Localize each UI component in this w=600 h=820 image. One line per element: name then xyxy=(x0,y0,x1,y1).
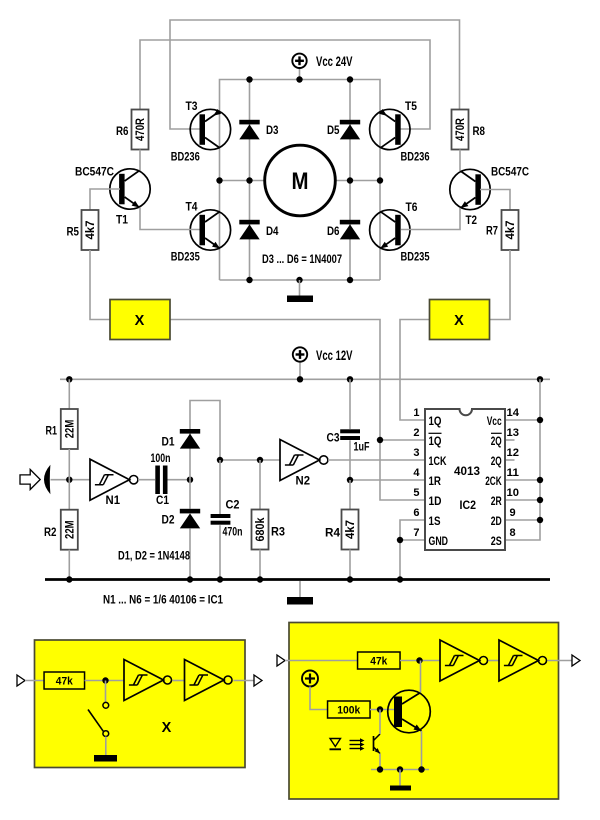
IC2 4013 body xyxy=(425,409,505,550)
wire between inverters xyxy=(173,680,185,682)
wire T1 base to R5 xyxy=(90,189,120,210)
svg-text:2D: 2D xyxy=(491,516,502,528)
wire right bridge leg lower xyxy=(379,181,381,281)
diode D6 xyxy=(340,220,360,240)
capacitor C1 xyxy=(155,466,167,495)
svg-text:N1: N1 xyxy=(106,493,121,507)
wire Vcc24 stub xyxy=(299,68,301,80)
junction gnd D2 xyxy=(187,576,193,582)
junction bottom 3 xyxy=(418,766,424,772)
wire C3 stem top xyxy=(349,379,351,429)
svg-text:1: 1 xyxy=(413,407,419,419)
detail-right output arrow xyxy=(572,655,580,666)
svg-text:X: X xyxy=(162,720,172,736)
pin stub 13 xyxy=(505,439,515,441)
junction rail C3 xyxy=(347,376,353,382)
switch contact top xyxy=(103,702,109,708)
wire R6 to T5 base (cross-coupling) xyxy=(140,40,430,129)
motor M xyxy=(265,145,336,216)
svg-text:1Q: 1Q xyxy=(429,416,442,428)
svg-text:T6: T6 xyxy=(406,200,418,214)
svg-text:5: 5 xyxy=(413,487,419,499)
schmitt inverter detail-left inverter 1 xyxy=(124,660,172,701)
svg-text:100k: 100k xyxy=(337,705,361,717)
svg-text:1uF: 1uF xyxy=(354,440,370,454)
svg-text:4: 4 xyxy=(413,467,420,479)
svg-text:R8: R8 xyxy=(473,124,486,138)
wire 47k to inverters xyxy=(400,660,440,662)
wire detail-right bottom xyxy=(371,769,429,771)
svg-text:4k7: 4k7 xyxy=(343,520,357,539)
transistor T1 BC547C xyxy=(110,169,150,209)
junction bottom rail D4 xyxy=(246,277,252,283)
junction p9 xyxy=(537,517,543,523)
block X left xyxy=(110,300,170,340)
svg-text:2: 2 xyxy=(413,427,419,439)
svg-text:T5: T5 xyxy=(405,99,417,113)
phototransistor glyph xyxy=(374,734,381,754)
schmitt inverter detail-left inverter 2 xyxy=(185,660,233,701)
junction p10 xyxy=(537,497,543,503)
svg-text:1D: 1D xyxy=(429,496,442,508)
svg-text:BD235: BD235 xyxy=(171,250,200,264)
ground detail-right xyxy=(390,786,411,791)
wire D2 to gnd xyxy=(189,528,191,579)
wire 1S pin 6 to GND pin 7 xyxy=(400,520,425,540)
wire C2 to gnd xyxy=(219,525,221,579)
junction rail pin14 xyxy=(537,376,543,382)
junction input node xyxy=(66,477,72,483)
diode D4 xyxy=(239,220,259,240)
svg-text:2S: 2S xyxy=(491,536,502,548)
sensor crescent xyxy=(44,465,50,494)
svg-text:D1: D1 xyxy=(162,435,175,449)
svg-text:11: 11 xyxy=(507,467,520,479)
wire sensor to N1 xyxy=(51,479,91,481)
diode D1 xyxy=(180,429,200,449)
transistor T3 BD236 xyxy=(190,109,230,150)
wire R6 bottom to T1 collector xyxy=(139,150,141,172)
svg-text:D3: D3 xyxy=(266,123,279,137)
wire T3 base to R8 (cross-coupling) xyxy=(170,20,460,129)
svg-text:6: 6 xyxy=(413,507,419,519)
wire switch stub xyxy=(105,681,107,703)
light rays xyxy=(350,738,365,750)
wire input to 47k xyxy=(285,660,358,662)
wire C2 stem xyxy=(219,460,221,514)
wire T2 emitter to T6 base xyxy=(401,208,461,230)
svg-text:T2: T2 xyxy=(466,213,478,227)
svg-text:14: 14 xyxy=(507,407,520,419)
svg-text:R3: R3 xyxy=(271,525,285,539)
svg-text:D3 ... D6 = 1N4007: D3 ... D6 = 1N4007 xyxy=(262,252,342,266)
capacitor C3 xyxy=(340,429,360,440)
wire ground rail 0V xyxy=(45,578,550,581)
svg-text:2Q: 2Q xyxy=(491,456,502,468)
wire R5 to X box left xyxy=(90,250,110,320)
junction bottom rail D6 xyxy=(347,277,353,283)
svg-text:T3: T3 xyxy=(186,99,198,113)
wire bridge ground stub xyxy=(299,280,301,296)
wire input to 47k xyxy=(25,680,44,682)
resistor R8 xyxy=(452,110,469,150)
svg-text:BC547C: BC547C xyxy=(75,165,114,179)
junction gnd R2 xyxy=(66,576,72,582)
wire R7 to X box right xyxy=(490,250,510,320)
wire R3 stem xyxy=(259,460,261,510)
wire node to R2 xyxy=(68,480,70,510)
junction p11 xyxy=(537,477,543,483)
svg-text:D2: D2 xyxy=(162,513,175,527)
wire base node to phototransistor xyxy=(379,710,381,735)
supply symbol Vcc 12V xyxy=(293,347,307,361)
overline 2Q pin13 xyxy=(491,432,502,434)
svg-text:8: 8 xyxy=(510,527,516,539)
wire 100k to base node xyxy=(370,709,394,711)
wire to output xyxy=(548,660,573,662)
wire motor mid rail left xyxy=(220,180,265,182)
wire D3/D4 leg xyxy=(249,80,251,281)
svg-text:GND: GND xyxy=(429,536,449,548)
wire R4 stem xyxy=(349,480,351,510)
resistor R7 xyxy=(502,210,519,250)
svg-text:T4: T4 xyxy=(186,200,198,214)
svg-text:13: 13 xyxy=(507,427,520,439)
wire gnd stub detail-right xyxy=(399,770,401,786)
svg-text:R4: R4 xyxy=(325,526,340,540)
overline 1Q pin2 xyxy=(429,432,442,434)
wire C1 to D junction xyxy=(168,479,191,481)
svg-text:R5: R5 xyxy=(67,225,80,239)
transistor T5 BD236 xyxy=(370,109,410,150)
junction mid rail D6 xyxy=(347,177,353,183)
svg-text:10: 10 xyxy=(507,487,520,499)
ground detail-left xyxy=(94,755,117,762)
svg-text:22M: 22M xyxy=(63,520,77,539)
junction gnd R3 xyxy=(257,576,263,582)
svg-text:D5: D5 xyxy=(327,123,340,137)
wire gnd stub xyxy=(299,581,301,597)
block X right xyxy=(430,300,490,340)
svg-text:1S: 1S xyxy=(429,516,441,528)
svg-text:2Q: 2Q xyxy=(491,436,502,448)
wire R1 stem xyxy=(68,379,70,409)
wire D1 loop to C2 node xyxy=(190,401,220,480)
wire C3 to R4/1R node xyxy=(350,440,425,480)
svg-text:R2: R2 xyxy=(44,525,57,539)
svg-text:BC547C: BC547C xyxy=(491,165,529,179)
svg-text:470R: 470R xyxy=(453,118,467,141)
schmitt inverter detail-right inverter 2 xyxy=(499,640,547,681)
svg-text:470n: 470n xyxy=(223,525,243,539)
wire emitter down xyxy=(421,731,423,770)
svg-text:N1 ... N6 = 1/6 40106 = IC1: N1 ... N6 = 1/6 40106 = IC1 xyxy=(103,593,223,607)
resistor R4 xyxy=(342,510,359,550)
junction bottom 2 xyxy=(397,766,403,772)
wire T2 base to R7 xyxy=(480,190,510,211)
svg-text:7: 7 xyxy=(413,527,419,539)
junction gnd R4 xyxy=(347,576,353,582)
junction p14 xyxy=(537,417,543,423)
wire left bridge leg lower xyxy=(219,181,221,281)
svg-text:C3: C3 xyxy=(327,431,340,445)
wire 2R pin 10 xyxy=(505,499,540,501)
schmitt inverter N2 xyxy=(280,440,328,481)
svg-text:12: 12 xyxy=(507,447,520,459)
svg-text:100n: 100n xyxy=(151,451,171,465)
wire 1Q to right X box input xyxy=(400,320,430,421)
transistor T4 BD235 xyxy=(190,210,230,250)
junction 1Qbar 1D xyxy=(377,437,383,443)
junction switch node xyxy=(102,677,108,683)
svg-text:X: X xyxy=(135,313,145,329)
svg-text:Vcc 24V: Vcc 24V xyxy=(316,54,353,69)
wire R3 to gnd xyxy=(259,550,261,580)
transistor T2 BC547C xyxy=(450,169,490,209)
wire plus to 100k xyxy=(310,687,328,710)
schmitt inverter N1 xyxy=(90,459,138,500)
capacitor C2 xyxy=(211,514,231,525)
wire collector to node xyxy=(420,661,422,693)
svg-text:D1, D2 = 1N4148: D1, D2 = 1N4148 xyxy=(118,549,190,563)
wire Vcc12 stub xyxy=(299,362,301,380)
svg-text:1R: 1R xyxy=(429,476,442,488)
junction bottom 1 xyxy=(377,766,383,772)
detail-right input arrow xyxy=(277,655,285,666)
wire 2CK pin 11 xyxy=(505,479,540,481)
switch lever xyxy=(88,710,103,732)
resistor R6 xyxy=(132,110,149,150)
wire motor mid rail right xyxy=(336,180,380,182)
resistor R2 xyxy=(61,510,78,550)
svg-text:9: 9 xyxy=(510,507,516,519)
wire Vcc strap right xyxy=(505,379,540,420)
diode D2 xyxy=(180,509,200,529)
svg-text:47k: 47k xyxy=(370,656,388,668)
junction pin6 pin7 xyxy=(397,537,403,543)
svg-text:R7: R7 xyxy=(486,224,498,238)
junction bottom rail gnd xyxy=(296,277,302,283)
wire R2 to ground rail xyxy=(68,550,70,580)
wire R4 to gnd xyxy=(349,550,351,580)
svg-text:4k7: 4k7 xyxy=(83,220,97,239)
wire 47k to inverters xyxy=(85,680,125,682)
resistor 47k right xyxy=(358,652,401,669)
junction D1 D2 xyxy=(187,477,193,483)
junction mid rail D4 xyxy=(246,177,252,183)
svg-text:680k: 680k xyxy=(253,517,267,541)
resistor 100k xyxy=(328,701,371,718)
input arrow xyxy=(20,470,40,490)
wire +24V top rail xyxy=(220,80,381,181)
svg-text:X: X xyxy=(454,313,464,329)
resistor R5 xyxy=(82,210,99,250)
svg-text:4k7: 4k7 xyxy=(503,220,517,239)
junction top rail Vcc xyxy=(296,76,302,82)
svg-text:470R: 470R xyxy=(133,118,147,141)
detail box X right xyxy=(289,623,559,800)
svg-text:BD236: BD236 xyxy=(171,150,200,164)
ground bridge xyxy=(287,296,313,303)
junction rail R1 xyxy=(66,376,72,382)
wire +12V rail xyxy=(60,378,550,380)
svg-text:22M: 22M xyxy=(63,420,77,439)
svg-text:C1: C1 xyxy=(156,493,169,507)
svg-text:1Q: 1Q xyxy=(429,436,442,448)
wire between inverters xyxy=(489,660,500,662)
wire R8 bottom to T2 collector xyxy=(459,150,461,172)
svg-text:BD236: BD236 xyxy=(401,150,430,164)
junction top rail D5 xyxy=(347,76,353,82)
svg-text:IC2: IC2 xyxy=(460,500,477,512)
svg-text:47k: 47k xyxy=(56,676,74,688)
schmitt inverter detail-right inverter 1 xyxy=(440,640,488,681)
svg-text:4013: 4013 xyxy=(454,464,480,478)
wire T1 emitter to T4 base xyxy=(140,208,200,230)
resistor R3 xyxy=(252,510,269,550)
junction mid rail left xyxy=(216,177,222,183)
transistor detail-right Q xyxy=(388,690,431,733)
junction R4 1R xyxy=(347,477,353,483)
supply plus symbol xyxy=(302,671,318,687)
wire bottom bridge rail xyxy=(220,279,381,281)
wire left X box output to 1D/1Q xyxy=(170,320,425,501)
svg-text:N2: N2 xyxy=(296,474,311,488)
svg-text:M: M xyxy=(292,168,309,195)
svg-text:T1: T1 xyxy=(116,213,128,227)
wire R1 to node xyxy=(68,449,70,480)
junction C2 node xyxy=(217,457,223,463)
pin stub 12 xyxy=(505,459,515,461)
light symbol bar xyxy=(330,748,342,750)
resistor 47k left xyxy=(44,672,85,689)
detail box X left xyxy=(35,640,246,768)
junction mid rail right xyxy=(377,177,383,183)
wire C2/R3 node to N2 xyxy=(220,459,280,461)
wire D5/D6 leg xyxy=(349,80,351,281)
svg-text:C2: C2 xyxy=(226,498,240,512)
diode D5 xyxy=(340,120,360,140)
junction base node xyxy=(377,706,383,712)
wire N2 out to 1CK pin 3 xyxy=(328,459,425,461)
switch contact bottom xyxy=(103,731,109,737)
wire node to D2 xyxy=(189,480,191,509)
wire to output xyxy=(234,680,255,682)
resistor R1 xyxy=(61,409,78,449)
wire phototransistor to bottom xyxy=(379,754,381,770)
svg-text:R1: R1 xyxy=(46,424,58,438)
svg-text:D6: D6 xyxy=(327,224,340,238)
svg-text:3: 3 xyxy=(413,447,419,459)
detail-left input arrow xyxy=(17,675,25,686)
supply symbol Vcc 24V xyxy=(292,54,306,68)
wire GND pin 7 to rail xyxy=(400,540,425,580)
junction R3 node xyxy=(257,457,263,463)
transistor T6 BD235 xyxy=(370,210,410,250)
junction gnd IC xyxy=(397,576,403,582)
wire 2D pin 9 xyxy=(505,519,540,521)
svg-text:Vcc 12V: Vcc 12V xyxy=(316,348,353,363)
junction gnd C2 xyxy=(217,576,223,582)
detail-left output arrow xyxy=(254,675,262,686)
svg-text:BD235: BD235 xyxy=(401,250,430,264)
svg-text:2R: 2R xyxy=(491,496,503,508)
ground logic xyxy=(287,597,313,605)
junction collector node xyxy=(416,657,422,663)
wire N1 out to C1 xyxy=(138,479,155,481)
svg-text:1CK: 1CK xyxy=(429,456,448,468)
light symbol triangle xyxy=(330,739,341,747)
wire 1Q-bar pin 2 xyxy=(380,439,425,441)
wire switch to gnd xyxy=(105,737,107,756)
junction top rail D3 xyxy=(246,76,252,82)
svg-text:Vcc: Vcc xyxy=(487,416,502,428)
wire right pins strap xyxy=(505,420,540,540)
svg-text:D4: D4 xyxy=(266,224,279,238)
junction rail Vcc12 xyxy=(297,376,303,382)
diode D3 xyxy=(239,120,259,140)
svg-text:R6: R6 xyxy=(116,124,129,138)
svg-text:2CK: 2CK xyxy=(485,476,502,488)
